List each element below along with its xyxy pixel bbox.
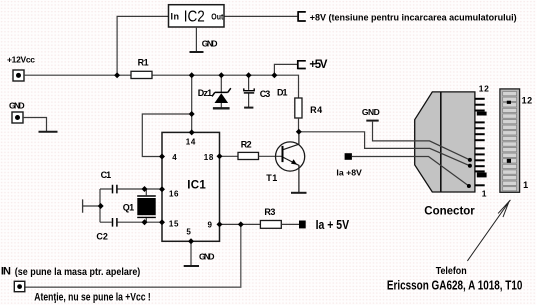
terminal +8V bracket (298, 11, 306, 22)
wire +5V jog (274, 64, 297, 75)
wire left GND (23, 118, 47, 132)
wire branch to IC1 pin4 (142, 114, 191, 157)
wire IC2 output to +8V terminal (224, 15, 297, 17)
svg-text:+5V: +5V (309, 59, 327, 71)
terminal Ia +5V square (299, 221, 306, 229)
resistor R2 (238, 152, 259, 159)
svg-text:C2: C2 (96, 231, 108, 241)
IC U1 box (162, 132, 220, 241)
svg-text:Dz1: Dz1 (198, 88, 213, 98)
wire R3 to Ia+5V (281, 223, 299, 225)
svg-text:R1: R1 (138, 58, 149, 68)
svg-text:IN: IN (1, 265, 11, 277)
svg-text:1: 1 (482, 188, 487, 198)
ground IC2 (190, 51, 204, 53)
svg-text:C3: C3 (260, 89, 271, 99)
svg-text:5: 5 (186, 228, 191, 237)
resistor R3 (260, 221, 281, 229)
ground stub near connector (366, 120, 378, 122)
resistor R1 (131, 71, 152, 78)
wire branch to IC1 pin14 (191, 75, 193, 132)
terminal +5V bracket (298, 60, 306, 69)
svg-text:GND: GND (9, 100, 25, 110)
terminal IN (14, 281, 24, 291)
svg-text:+12Vcc: +12Vcc (7, 54, 35, 64)
svg-text:Out: Out (211, 12, 223, 21)
svg-text:18: 18 (204, 153, 214, 162)
connector pins (475, 99, 485, 186)
crystal Q1 (145, 189, 147, 222)
transistor T1 (276, 142, 305, 171)
wire IN net (25, 224, 241, 287)
capacitor C3 (248, 75, 250, 90)
junction dots (98, 72, 302, 244)
resistor R4 (295, 98, 302, 118)
wire left crystal rail (99, 189, 101, 222)
terminal +12Vcc (13, 70, 24, 81)
svg-text:4: 4 (172, 153, 177, 162)
svg-text:IC1: IC1 (187, 179, 206, 191)
connector pad blocks (477, 112, 487, 116)
svg-text:9: 9 (208, 221, 213, 230)
svg-text:GND: GND (199, 251, 215, 261)
ground C3 (244, 107, 253, 109)
svg-text:+8V (tensiune pentru incarcar: +8V (tensiune pentru incarcarea acumulat… (310, 13, 517, 23)
wire pin18 to R2 (220, 155, 239, 157)
svg-text:IC2: IC2 (184, 9, 205, 26)
strip key square lower (507, 159, 511, 163)
svg-text:C1: C1 (101, 170, 112, 180)
svg-text:1: 1 (523, 180, 528, 190)
svg-text:Atenţie, nu se pune la +Vcc !: Atenţie, nu se pune la +Vcc ! (34, 291, 150, 303)
svg-text:14: 14 (186, 138, 196, 147)
svg-text:Ericsson GA628, A 1018, T10: Ericsson GA628, A 1018, T10 (387, 278, 523, 292)
regulator IC2 (169, 5, 225, 27)
svg-text:Ia +8V: Ia +8V (336, 168, 362, 178)
connector wire end dots (468, 158, 472, 162)
wire IC1 pin5 ground (190, 241, 192, 265)
wire IC2 ground pin (195, 27, 197, 52)
wire R2 to T1 base (259, 155, 282, 157)
wire R4 to node (298, 118, 300, 132)
svg-text:16: 16 (169, 189, 179, 198)
svg-text:T1: T1 (266, 173, 277, 183)
connector divider (440, 92, 442, 192)
svg-text:(se pune la masa ptr. apelare): (se pune la masa ptr. apelare) (15, 267, 141, 278)
zener Dz1 (220, 75, 222, 92)
capacitor C1 (100, 188, 162, 190)
ground IC1 (184, 265, 199, 267)
svg-text:GND: GND (362, 107, 380, 117)
wire pin9 to R3 (220, 223, 261, 225)
svg-text:Q1: Q1 (123, 203, 135, 213)
svg-text:12: 12 (479, 84, 489, 94)
svg-text:D1: D1 (277, 87, 288, 97)
svg-text:In: In (171, 12, 180, 22)
connector body (415, 92, 475, 192)
wire Ia+8V to connector (352, 157, 469, 187)
svg-text:R2: R2 (241, 140, 252, 150)
open stub terminal (83, 199, 101, 212)
wire main rail (24, 75, 299, 98)
phone connector strip (500, 89, 520, 192)
wire node to connector (via step) (299, 132, 470, 166)
capacitor C2 (100, 221, 162, 223)
arrow to phone connector (467, 200, 510, 261)
strip key square upper (507, 101, 511, 104)
ground Dz1 (213, 107, 230, 109)
svg-text:GND: GND (202, 38, 218, 48)
terminal Ia +8V square (345, 153, 352, 160)
svg-text:Telefon: Telefon (436, 266, 467, 277)
wire IC2 input from rail (117, 16, 168, 75)
svg-text:12: 12 (522, 95, 533, 105)
ground T1 emitter (291, 192, 307, 194)
svg-text:Conector: Conector (424, 206, 475, 218)
svg-text:R3: R3 (264, 207, 275, 217)
svg-text:Ia + 5V: Ia + 5V (316, 218, 350, 232)
svg-text:R4: R4 (310, 105, 322, 115)
terminal GND left (12, 112, 23, 123)
svg-text:15: 15 (169, 219, 179, 228)
ground left (39, 131, 58, 133)
